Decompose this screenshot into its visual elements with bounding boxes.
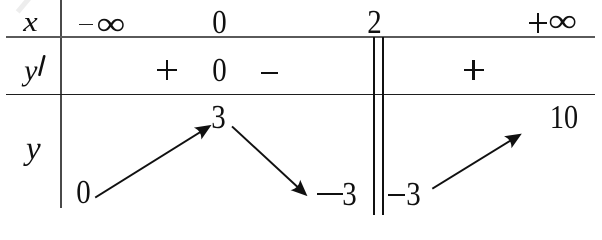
increasing arrow from 0 to 3	[95, 120, 213, 197]
y value 3 top	[211, 101, 225, 135]
y' sign plus (second), vertical arm	[472, 60, 474, 80]
y' sign plus (first), vertical arm	[166, 60, 168, 80]
row header y	[26, 133, 41, 166]
decreasing arrow from 3 to -3	[232, 126, 311, 199]
header column separator line	[60, 0, 62, 208]
x value 2	[367, 6, 381, 40]
x value 0	[212, 6, 226, 40]
y' sign minus	[261, 72, 278, 74]
double bar at x=2, right stroke	[382, 37, 384, 215]
minus of -3 right	[388, 194, 405, 196]
infinity symbol left	[97, 7, 126, 40]
digit 3 of -3 left	[342, 178, 356, 212]
row header y prime: letter y	[24, 56, 37, 86]
plus of +infinity, horizontal arm	[529, 22, 547, 24]
row header x	[23, 8, 37, 37]
infinity symbol right	[548, 5, 577, 38]
plus of +infinity, vertical arm	[537, 13, 539, 33]
digit 3 of -3 right	[406, 178, 420, 212]
increasing arrow from -3 to 10	[432, 129, 524, 189]
minus of -3 left	[317, 193, 343, 195]
y value 0 bottom left	[76, 176, 90, 210]
minus of -infinity	[79, 24, 94, 26]
y' sign plus (first), horizontal arm	[157, 69, 177, 71]
y value 10 top right	[550, 101, 578, 135]
double bar at x=2, left stroke	[373, 37, 375, 215]
y' sign plus (second), horizontal arm	[464, 69, 484, 71]
horizontal rule under y' row	[6, 94, 595, 96]
y' zero	[213, 54, 227, 88]
faint watermark swoosh	[16, 0, 31, 14]
horizontal rule under x row	[6, 36, 596, 38]
